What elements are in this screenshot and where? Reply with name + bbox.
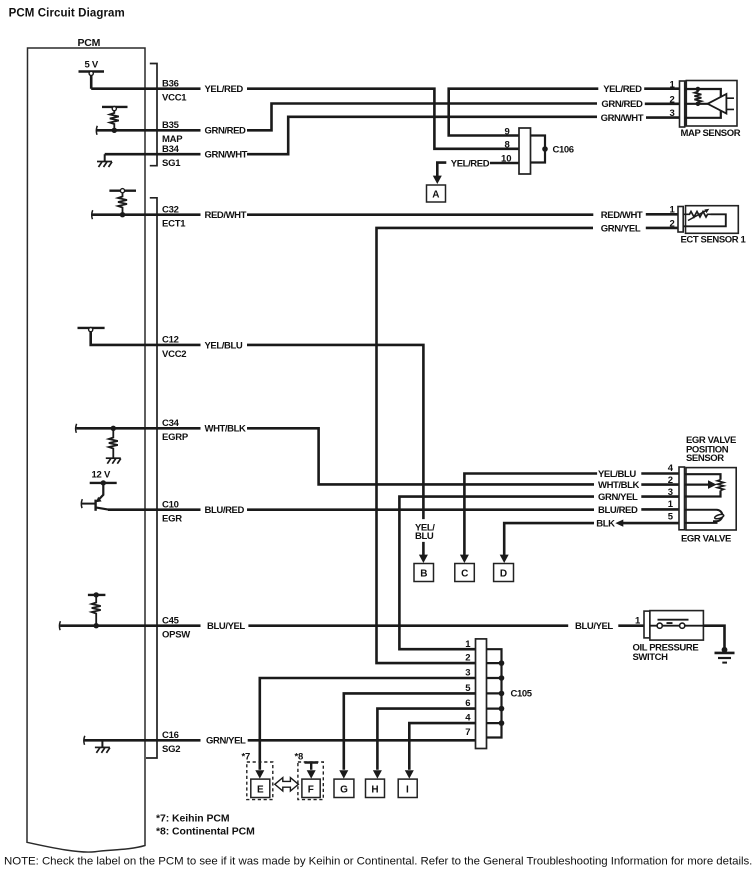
pull-up bar (C45) <box>88 594 106 596</box>
svg-text:NOTE: Check the label on the P: NOTE: Check the label on the PCM to see … <box>4 856 752 868</box>
svg-text:VCC1: VCC1 <box>162 93 187 104</box>
wire C12 pin <box>91 332 201 345</box>
wire hook to A <box>437 163 446 177</box>
svg-text:GRN/WHT: GRN/WHT <box>205 150 248 161</box>
svg-text:YEL/RED: YEL/RED <box>205 84 244 95</box>
connector box C <box>455 564 475 582</box>
connector box A <box>427 185 446 202</box>
wire GRN/YEL ECT pin 2 to C105 pin 2 <box>377 228 679 663</box>
svg-text:BLU/YEL: BLU/YEL <box>575 621 613 632</box>
arrowhead to C <box>460 555 469 563</box>
wire B36 pin <box>91 76 200 89</box>
junction dot (12V bar) <box>101 480 106 485</box>
wire GRN/YEL C105 pin1 to EGR pin 3 <box>399 497 594 650</box>
wire B35 pin <box>97 129 201 132</box>
junction dot (R4/C45) <box>94 623 99 628</box>
svg-text:C106: C106 <box>553 144 574 155</box>
svg-text:SG2: SG2 <box>162 744 180 755</box>
ECT sensor box <box>686 206 739 234</box>
arrowhead to E <box>255 770 264 778</box>
wire EGR pin 2 stub <box>641 483 679 486</box>
wire C105 pin 4 to I <box>409 723 475 770</box>
ECT sensor connector <box>678 207 683 233</box>
svg-text:3: 3 <box>668 487 673 498</box>
wire YEL/BLU EGR pin 4 to C <box>464 474 597 556</box>
wire C32 pin <box>92 213 200 216</box>
svg-text:G: G <box>340 785 348 796</box>
wire GRN/RED to MAP pin 2 <box>247 104 597 131</box>
arrowhead on BLK wire <box>615 520 623 527</box>
svg-text:C10: C10 <box>162 499 179 510</box>
arrowhead to D <box>500 555 509 563</box>
wire-end tick (C32) <box>91 210 94 219</box>
svg-text:F: F <box>308 785 314 796</box>
wire EGR pin 4 stub <box>641 472 679 475</box>
wire C105 pin 6 to H <box>377 709 475 770</box>
resistor R1 (to B35) <box>102 107 128 131</box>
resistor R2 (to C32) <box>109 189 136 215</box>
C105 jumper dots <box>499 660 505 726</box>
EGR connector <box>679 467 685 530</box>
pin B36 label <box>162 78 187 103</box>
svg-text:RED/WHT: RED/WHT <box>601 210 643 221</box>
wire C105 pin 3 to E <box>260 678 476 770</box>
svg-text:C: C <box>461 569 468 580</box>
svg-text:B35: B35 <box>162 120 180 131</box>
EGR VALVE POSITION SENSOR label <box>686 435 736 464</box>
svg-text:VCC2: VCC2 <box>162 349 186 360</box>
svg-text:ECT SENSOR 1: ECT SENSOR 1 <box>681 235 747 246</box>
C106 connector <box>519 128 531 174</box>
VCC2 power symbol <box>78 328 105 332</box>
arrowhead to B <box>419 555 428 563</box>
pin C10 label <box>162 499 182 524</box>
connector bracket C (C32-C16 group) <box>146 198 157 758</box>
svg-text:PCM: PCM <box>78 37 101 49</box>
wire BLU/YEL to oil pressure switch <box>248 624 568 627</box>
wire EGR pin 3 stub <box>641 495 679 498</box>
C106 pin numbers <box>501 126 512 164</box>
EGR solenoid coil <box>685 510 723 523</box>
resistor R4 (C45) <box>92 595 101 626</box>
EGR position sensor rails <box>685 474 721 496</box>
pin C34 label <box>162 418 189 443</box>
svg-text:C16: C16 <box>162 730 179 741</box>
junction dot (R1/B35) <box>112 128 117 133</box>
wire C10 pin <box>108 508 201 511</box>
switch contacts <box>650 625 704 627</box>
OIL PRESSURE SWITCH label <box>633 643 699 663</box>
wire RED/WHT to ECT pin 1 <box>247 213 593 216</box>
svg-text:SWITCH: SWITCH <box>633 652 669 663</box>
5V power symbol <box>79 60 105 76</box>
pin B34 label <box>162 144 181 169</box>
transistor Q1 <box>82 483 109 511</box>
wire EGR pin 1 stub <box>641 508 679 511</box>
svg-text:4: 4 <box>668 463 674 474</box>
svg-text:E: E <box>257 785 264 796</box>
ground (SG1) <box>104 154 106 161</box>
connector box I <box>398 779 417 797</box>
resistor R3 (C34 to ground) <box>109 428 118 458</box>
svg-text:A: A <box>432 190 439 201</box>
wire MAP pin 2 stub <box>645 103 680 106</box>
svg-text:5 V: 5 V <box>85 60 99 71</box>
coil end loop <box>714 514 724 520</box>
svg-text:B: B <box>420 569 427 580</box>
arrowhead to G <box>339 770 348 778</box>
C105 pin numbers <box>465 639 471 738</box>
wire BLU/RED to EGR pin 1 <box>247 508 594 511</box>
svg-text:9: 9 <box>505 126 510 137</box>
wire-end tick (C16) <box>83 736 86 745</box>
C106 jumper <box>531 136 546 163</box>
arrowhead to F <box>307 770 316 778</box>
arrowhead to I <box>405 770 414 778</box>
svg-text:GRN/YEL: GRN/YEL <box>206 736 246 747</box>
svg-text:EGR VALVE: EGR VALVE <box>681 534 731 545</box>
svg-text:GRN/YEL: GRN/YEL <box>598 492 638 503</box>
connector box D <box>494 564 514 582</box>
C105 connector <box>476 639 487 749</box>
svg-text:YEL/BLU: YEL/BLU <box>598 469 636 480</box>
wire WHT/BLK to EGR pin 2 <box>247 428 594 484</box>
svg-text:7: 7 <box>465 727 470 738</box>
MAP sensor box <box>686 81 737 127</box>
oil pressure switch box <box>650 611 704 641</box>
connector box B <box>414 564 434 582</box>
svg-text:1: 1 <box>465 639 471 650</box>
oil pressure switch connector <box>644 611 650 638</box>
svg-text:GRN/WHT: GRN/WHT <box>601 113 644 124</box>
ground (C34) <box>106 458 121 464</box>
junction dot (R3/C34) <box>111 426 116 431</box>
pin C16 label <box>162 730 180 755</box>
svg-text:2: 2 <box>670 94 675 105</box>
svg-text:GRN/RED: GRN/RED <box>601 99 643 110</box>
ECT internal loop <box>684 214 726 226</box>
svg-text:C45: C45 <box>162 615 180 626</box>
svg-text:*7: *7 <box>242 752 250 763</box>
svg-text:C105: C105 <box>511 688 533 699</box>
svg-text:1: 1 <box>668 499 674 510</box>
wire C16 pin <box>85 739 201 742</box>
svg-text:MAP SENSOR: MAP SENSOR <box>681 128 741 139</box>
switch blade <box>658 620 689 623</box>
ground (SG2) <box>101 740 103 747</box>
svg-text:SG1: SG1 <box>162 158 181 169</box>
pin C45 label <box>162 615 190 640</box>
wire C45 pin <box>60 624 200 627</box>
connector bracket B (B36-B34 group) <box>150 64 157 166</box>
earth ground (switch) <box>722 647 728 653</box>
svg-text:*8: *8 <box>295 752 303 763</box>
MAP sensor pin numbers <box>670 80 676 120</box>
svg-text:C12: C12 <box>162 335 179 346</box>
thermistor arrow <box>688 210 707 220</box>
svg-text:8: 8 <box>505 140 510 151</box>
svg-text:1: 1 <box>670 80 676 91</box>
thermistor (ECT internal) <box>684 212 711 218</box>
wire-end tick (B35) <box>95 126 98 135</box>
svg-text:2: 2 <box>465 653 470 664</box>
svg-text:B36: B36 <box>162 78 179 89</box>
double arrow between E and F <box>275 778 299 791</box>
connector box F <box>302 779 320 797</box>
svg-text:C32: C32 <box>162 204 179 215</box>
svg-text:I: I <box>406 785 409 796</box>
C105 jumper <box>487 649 502 737</box>
svg-text:3: 3 <box>670 108 675 119</box>
svg-text:WHT/BLK: WHT/BLK <box>598 480 640 491</box>
svg-text:C34: C34 <box>162 418 180 429</box>
wiper wire and arrow (EGR pin 2) <box>685 484 709 486</box>
MAP sensor connector <box>680 81 685 127</box>
svg-text:ECT1: ECT1 <box>162 219 186 230</box>
svg-text:YEL/RED: YEL/RED <box>603 84 642 95</box>
EGR pin numbers <box>668 463 674 522</box>
svg-text:BLK: BLK <box>596 518 615 529</box>
arrowhead to H <box>373 770 382 778</box>
wire GRN/YEL C16 to C105 pin 7 <box>248 739 476 742</box>
wire GRN/WHT to MAP pin 3 <box>247 117 597 154</box>
MAP internal rails <box>685 89 721 118</box>
wire MAP pin 3 stub <box>646 116 680 119</box>
resistor R5 (MAP internal) <box>694 89 701 104</box>
wire switch pin 1 stub <box>618 624 644 627</box>
svg-text:BLU/YEL: BLU/YEL <box>207 621 245 632</box>
svg-text:RED/WHT: RED/WHT <box>205 210 247 221</box>
wire ECT pin 1 stub <box>646 213 678 216</box>
label YEL/BLU (to B) <box>415 522 435 542</box>
op-amp triangle (MAP internal) <box>708 94 727 114</box>
connector box G <box>334 779 354 797</box>
wire C105 pin 5 to G <box>344 693 476 769</box>
dashed box around F <box>298 762 323 800</box>
svg-text:5: 5 <box>668 511 674 522</box>
pin C12 label <box>162 335 186 360</box>
svg-text:BLU/RED: BLU/RED <box>598 505 638 516</box>
junction dot (R2/C32) <box>120 212 125 217</box>
svg-text:OPSW: OPSW <box>162 630 190 641</box>
wire-end tick (Q1 base) <box>80 499 83 508</box>
connector box E <box>251 779 270 797</box>
svg-text:*8: Continental PCM: *8: Continental PCM <box>156 826 255 837</box>
wire-end tick (C45) <box>58 621 61 630</box>
svg-text:EGRP: EGRP <box>162 432 189 443</box>
svg-text:BLU: BLU <box>415 531 434 542</box>
12V power symbol <box>90 470 117 483</box>
svg-text:YEL/RED: YEL/RED <box>451 158 490 169</box>
pin C32 label <box>162 204 186 229</box>
wire-end tick (C34) <box>75 424 78 433</box>
svg-text:D: D <box>500 569 507 580</box>
svg-text:YEL/BLU: YEL/BLU <box>205 340 243 351</box>
svg-text:1: 1 <box>635 615 641 626</box>
svg-text:2: 2 <box>670 218 675 229</box>
connector box H <box>366 779 385 797</box>
resistor R6 (EGR position sensor) <box>717 480 723 491</box>
svg-text:SENSOR: SENSOR <box>686 453 724 464</box>
pin B35 label <box>162 120 183 145</box>
wire MAP pin 1 stub <box>644 87 679 90</box>
svg-text:EGR: EGR <box>162 514 182 525</box>
dashed box around E <box>247 762 273 800</box>
svg-text:12 V: 12 V <box>92 470 111 481</box>
junction dot (C45 bar) <box>94 592 99 597</box>
junction dots (MAP resistor) <box>696 87 701 92</box>
svg-text:BLU/RED: BLU/RED <box>205 505 245 516</box>
svg-text:GRN/YEL: GRN/YEL <box>601 223 641 234</box>
wire C106 pin 10 <box>490 162 519 165</box>
wire YEL/RED to C106 pin 8 <box>247 89 519 149</box>
wire B34 pin <box>105 153 201 156</box>
svg-text:B34: B34 <box>162 144 180 155</box>
PCM box <box>27 48 145 852</box>
svg-text:1: 1 <box>670 205 676 216</box>
C106 jumper dot <box>542 146 548 152</box>
svg-text:PCM Circuit Diagram: PCM Circuit Diagram <box>9 8 125 20</box>
ECT sensor pin numbers <box>670 205 676 230</box>
svg-text:H: H <box>371 785 378 796</box>
op-amp output stubs <box>726 98 734 109</box>
wire C34 pin <box>76 427 200 430</box>
svg-text:WHT/BLK: WHT/BLK <box>205 424 247 435</box>
svg-text:2: 2 <box>668 475 673 486</box>
wire YEL/BLU C12 to B <box>247 345 423 555</box>
wire C106 pin 9 to MAP pin 1 <box>449 89 599 136</box>
wire switch to ground <box>703 626 724 650</box>
wire BLK EGR pin 5 to D <box>504 523 679 555</box>
EGR valve box <box>686 468 736 530</box>
svg-text:*7: Keihin PCM: *7: Keihin PCM <box>156 814 230 825</box>
svg-text:GRN/RED: GRN/RED <box>205 126 247 137</box>
F stub wire <box>305 763 319 770</box>
arrowhead to A <box>433 176 442 184</box>
